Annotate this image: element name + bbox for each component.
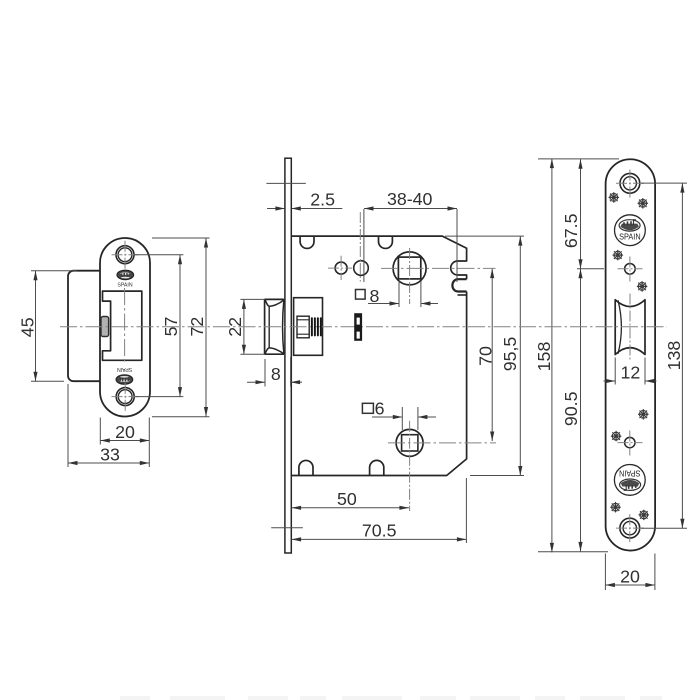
dimension 6 extension lines (401, 407, 403, 430)
dimension 45 (35, 271, 37, 382)
faceplate top screw hole (620, 173, 640, 193)
bottom screw hole crosshair (112, 396, 139, 398)
faceplate latch opening (615, 300, 645, 355)
dimension 72 extension lines (152, 237, 210, 239)
dimension 45 extension lines (31, 270, 77, 272)
dimension 8 spindle extension lines (398, 281, 400, 307)
dimension 8 latch arrows (247, 381, 266, 383)
svg-text:67.5: 67.5 (561, 213, 581, 248)
dimension 12 extension lines (614, 358, 616, 385)
latch bolt head (264, 299, 266, 354)
dimension 57 (179, 255, 181, 397)
dimension 95.5 (519, 236, 521, 475)
dimension 90.5 (580, 269, 582, 552)
dimension 33 (68, 462, 149, 464)
svg-text:70: 70 (476, 346, 496, 366)
strip bottom tick (271, 527, 303, 529)
dimension 2.5 arrows (267, 208, 284, 210)
dimension 158 extension lines (538, 158, 619, 160)
bottom follower square hole (402, 435, 418, 451)
dimension 158 (551, 159, 553, 553)
strike plate bottom logo (rotated) (116, 375, 133, 384)
svg-text:SPAIN: SPAIN (117, 366, 132, 372)
svg-text:70.5: 70.5 (362, 521, 397, 541)
dimension 8 spindle arrows (368, 303, 399, 305)
square 8 label symbol (356, 290, 366, 300)
dimension 57 extension lines (134, 254, 183, 256)
spindle crosshair vertical (409, 248, 411, 304)
dimension 72 (205, 238, 207, 417)
svg-text:6: 6 (375, 399, 385, 419)
top screw hole crosshair (112, 254, 139, 256)
dimension 38-40 left extension line (363, 209, 365, 282)
strike plate bottom screw hole (116, 388, 134, 406)
bottom screw crosshair (616, 527, 644, 529)
spindle crosshair horizontal (381, 267, 496, 269)
svg-text:8: 8 (271, 364, 281, 384)
dimension 50 (292, 507, 409, 509)
case top notch 1 (300, 236, 314, 248)
svg-text:38-40: 38-40 (387, 189, 433, 209)
svg-text:138: 138 (664, 341, 684, 371)
spindle hole circle (393, 252, 426, 285)
svg-text:2.5: 2.5 (310, 190, 335, 210)
strike plate lip (68, 271, 100, 382)
small hole lower crosshair (618, 442, 643, 444)
strike plate outline (100, 238, 150, 417)
dimension 138 extension lines (641, 182, 687, 184)
internal pin part (355, 314, 361, 340)
latch tail housing (294, 298, 323, 356)
svg-text:20: 20 (620, 567, 640, 587)
latch bevel arcs (265, 300, 284, 307)
dimension 70 (491, 269, 493, 441)
svg-text:SPAIN: SPAIN (117, 283, 132, 289)
dimension 8 latch extension lines (264, 359, 266, 387)
small hole lower (625, 437, 635, 447)
dimension 12 arrows (604, 380, 616, 382)
dimension 38-40 (364, 208, 457, 210)
strip top tick (266, 182, 305, 184)
faceplate strip edge view (285, 158, 291, 553)
cylinder circle centerline (359, 212, 361, 282)
latch bevel inner line (268, 306, 270, 348)
svg-text:12: 12 (621, 363, 641, 383)
strike plate latch opening (103, 291, 142, 360)
lock case outline (291, 236, 466, 279)
bottom follower hole circle (396, 429, 423, 456)
svg-text:45: 45 (18, 317, 38, 337)
dimension 67.5 (580, 159, 582, 268)
slot lower lip line (458, 294, 467, 296)
square 6 label symbol (362, 403, 373, 413)
latch spring coils (311, 317, 313, 336)
top screw crosshair (616, 182, 644, 184)
dimension 67.5 and 90.5 extension lines (577, 268, 604, 270)
case bottom notch 1 (299, 460, 313, 475)
dimension 6 arrows (372, 416, 402, 418)
faceplate top logo (615, 215, 646, 246)
opening vertical centerline (124, 288, 126, 364)
bottom follower crosshair horizontal (388, 442, 496, 444)
cylinder circle hole (354, 261, 369, 276)
dimension 20 extension lines (99, 418, 101, 445)
svg-text:90.5: 90.5 (561, 391, 581, 426)
svg-text:20: 20 (115, 422, 135, 442)
texture stars upper (609, 193, 618, 202)
dimension 33 extension line (67, 384, 69, 467)
dimension 38-40 right extension line (456, 209, 458, 282)
dimension 70.5 extension line (465, 478, 467, 543)
latch reversal slot bold outline (452, 279, 466, 291)
faceplate front outline (606, 159, 656, 550)
small hole upper (625, 264, 636, 275)
texture stars lower (639, 410, 648, 419)
dimension 20 faceplate (605, 584, 655, 586)
small circle crosshair (328, 267, 352, 269)
small circle hole left (335, 262, 347, 274)
strike plate top logo (117, 270, 134, 279)
main horizontal centerline (60, 326, 667, 328)
latch tail rod (297, 316, 309, 338)
case bottom notch 2 (370, 460, 384, 475)
small hole upper crosshair (618, 268, 643, 270)
svg-text:33: 33 (100, 445, 120, 465)
faceplate bottom logo (rotated) (614, 465, 645, 496)
dimension 20 (100, 440, 149, 442)
svg-text:158: 158 (534, 342, 554, 372)
bottom follower crosshair vertical (409, 421, 411, 511)
svg-text:50: 50 (337, 489, 357, 509)
dimension 138 (681, 183, 683, 528)
faint cropped text strip at bottom (120, 696, 150, 700)
opening vertical centerline (629, 294, 631, 362)
latch curve inside opening (618, 300, 621, 354)
dimension 22 extension lines (240, 298, 264, 300)
latch keeper tab (101, 317, 109, 337)
strike plate top screw hole (116, 246, 134, 264)
dimension 95.5 extension lines (445, 235, 524, 237)
faceplate bottom screw hole (620, 518, 640, 538)
dimension 22 (243, 299, 245, 354)
dimension 20 faceplate extension lines (604, 554, 606, 591)
svg-text:95,5: 95,5 (500, 337, 520, 372)
dimension 70.5 (292, 538, 467, 540)
strike plate bottom SPAIN text (rotated) (117, 366, 132, 372)
case top notch 2 (379, 236, 393, 248)
spindle square hole (398, 257, 420, 279)
